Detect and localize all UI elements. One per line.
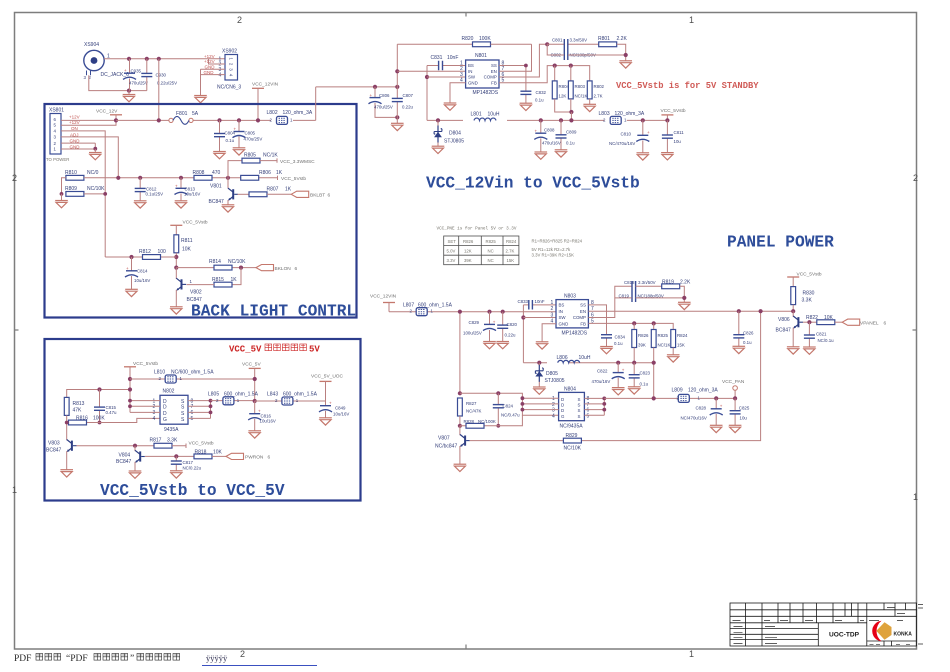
wire FB pin to divider <box>499 66 590 83</box>
capacitor C815 <box>94 387 117 424</box>
wire COMP pin up to compensation net <box>499 44 547 77</box>
svg-text:R805: R805 <box>244 152 256 158</box>
resistor R805 <box>226 152 278 180</box>
wire jack pins2,3 down and right <box>89 75 147 90</box>
connector XS801 <box>46 108 69 163</box>
ground <box>55 201 68 208</box>
IC N804 NC/9435A <box>552 387 590 430</box>
wire R811 node to V802 and R814 <box>174 266 178 270</box>
inductor L801 <box>471 112 500 121</box>
svg-text:NC: NC <box>488 249 494 254</box>
svg-text:C808: C808 <box>544 127 555 132</box>
svg-text:9435A: 9435A <box>164 427 179 433</box>
capacitor C834 (SS) <box>588 305 625 347</box>
svg-text:2: 2 <box>603 117 606 122</box>
svg-text:COMP: COMP <box>484 75 497 80</box>
svg-text:R827: R827 <box>466 401 477 406</box>
svg-text:BKLBT: BKLBT <box>310 193 325 199</box>
resistor R820 <box>397 36 531 47</box>
svg-text:10u/16V: 10u/16V <box>260 419 276 424</box>
svg-text:C817: C817 <box>183 460 194 465</box>
net GND pin3 <box>201 65 226 70</box>
svg-text:C801: C801 <box>552 38 563 43</box>
svg-text:VCC_5Vstb: VCC_5Vstb <box>661 108 686 114</box>
svg-text:10uH: 10uH <box>488 112 500 118</box>
svg-text:BC847: BC847 <box>209 199 225 205</box>
svg-text:R826: R826 <box>638 333 649 338</box>
svg-text:N801: N801 <box>475 53 487 59</box>
resistor R809 <box>60 186 108 200</box>
svg-text:NC/10K: NC/10K <box>228 259 246 265</box>
svg-text:C823: C823 <box>640 370 651 375</box>
svg-text:39K: 39K <box>464 258 472 263</box>
svg-text:BKLON: BKLON <box>275 266 292 272</box>
ground <box>134 201 147 208</box>
svg-text:BC847: BC847 <box>187 297 203 303</box>
svg-text:2: 2 <box>153 404 156 410</box>
svg-text:D: D <box>163 405 167 411</box>
resistor R813 <box>64 387 132 440</box>
ground <box>533 387 546 394</box>
diode D805 STJ0805 <box>535 361 564 387</box>
svg-text:10nF: 10nF <box>535 299 545 304</box>
ferrite bead L843 <box>255 392 326 405</box>
resistor R829 <box>563 433 581 452</box>
svg-text:”: ” <box>130 654 134 664</box>
svg-text:C935: C935 <box>131 68 142 73</box>
ground <box>233 148 246 155</box>
capacitor C829 <box>463 310 496 342</box>
resistor R804 <box>552 66 571 112</box>
svg-text:+12V: +12V <box>204 59 215 64</box>
capacitor C824 <box>493 391 520 428</box>
svg-text:V806: V806 <box>778 317 790 323</box>
svg-text:SET: SET <box>448 239 457 244</box>
svg-text:10u/16V: 10u/16V <box>184 192 200 197</box>
svg-text:VCC_5Vstb: VCC_5Vstb <box>189 440 214 446</box>
svg-text:1: 1 <box>913 492 918 502</box>
wire SW row <box>427 76 466 78</box>
resistor R817 <box>150 438 187 448</box>
svg-text:6: 6 <box>295 266 298 272</box>
svg-text:C829: C829 <box>469 320 480 325</box>
resistor R825 <box>651 323 670 362</box>
svg-text:VCC_5Vstb is for 5V STANDBY: VCC_5Vstb is for 5V STANDBY <box>616 81 759 91</box>
svg-text:+12V: +12V <box>204 54 215 59</box>
wire rail down to N804 <box>459 312 461 394</box>
svg-text:+: + <box>535 128 538 133</box>
svg-text:EN: EN <box>580 309 586 314</box>
port VPANEL <box>842 319 886 326</box>
svg-text:L803: L803 <box>599 111 610 117</box>
svg-text:NC/CN6_3: NC/CN6_3 <box>217 85 241 91</box>
ground <box>194 96 207 103</box>
svg-text:VCC_5V: VCC_5V <box>229 345 262 355</box>
svg-text:2.2K: 2.2K <box>680 280 691 286</box>
svg-text:R824: R824 <box>506 239 517 244</box>
capacitor C818 <box>624 280 663 302</box>
svg-text:0.1u: 0.1u <box>743 340 752 345</box>
wire SW output rail <box>427 119 667 121</box>
transistor V803 <box>46 440 77 470</box>
svg-text:C832: C832 <box>536 90 547 95</box>
ground <box>612 388 625 395</box>
svg-text:BC847: BC847 <box>116 459 132 465</box>
transistor V804 <box>116 444 145 471</box>
wire base bus <box>84 177 278 179</box>
svg-text:6: 6 <box>268 455 271 461</box>
svg-text:IN: IN <box>559 309 563 314</box>
ground <box>600 347 613 354</box>
svg-text:S: S <box>578 414 581 419</box>
svg-text:BC847: BC847 <box>46 448 62 454</box>
svg-text:120_ohm_3A: 120_ohm_3A <box>688 387 718 393</box>
wire GND pin to ground <box>542 324 556 342</box>
svg-text:10K: 10K <box>182 247 192 253</box>
svg-text:VCC_5V: VCC_5V <box>242 362 261 368</box>
svg-text:S: S <box>578 397 581 402</box>
svg-text:1: 1 <box>296 398 299 403</box>
svg-text:12K: 12K <box>559 94 567 99</box>
svg-text:G: G <box>561 414 565 419</box>
svg-text:L802: L802 <box>267 110 278 116</box>
transistor V802 <box>176 268 202 307</box>
svg-text:D804: D804 <box>449 131 461 137</box>
ground <box>125 289 138 296</box>
svg-text:2: 2 <box>551 306 554 312</box>
power VCC_5Vstb rail for R811 <box>170 219 208 235</box>
ground <box>170 471 183 478</box>
ground <box>391 123 404 130</box>
svg-text:6: 6 <box>884 320 887 326</box>
svg-text:C807: C807 <box>403 93 414 98</box>
svg-text:NC/10K: NC/10K <box>564 446 582 452</box>
svg-text:D: D <box>561 403 564 408</box>
svg-text:2.2K: 2.2K <box>617 36 628 42</box>
ground <box>733 346 746 353</box>
svg-text:R801: R801 <box>598 36 610 42</box>
capacitor C823 <box>629 363 651 387</box>
note (red) VCC_5V is standby-switched 5V <box>229 344 320 355</box>
svg-text:2: 2 <box>240 649 245 659</box>
svg-text:470u/16V: 470u/16V <box>592 379 611 384</box>
svg-text:VCC_12V: VCC_12V <box>96 109 118 115</box>
svg-text:R803: R803 <box>575 84 586 89</box>
svg-text:NC: NC <box>488 258 494 263</box>
svg-text:V801: V801 <box>210 184 222 190</box>
capacitor C804 <box>214 118 236 151</box>
capacitor C819 <box>615 293 685 298</box>
ground <box>710 425 723 432</box>
ground <box>129 471 142 478</box>
wire COMP to compensation <box>588 286 631 317</box>
ground <box>444 103 457 110</box>
svg-text:V807: V807 <box>438 436 450 442</box>
capacitor C820 <box>497 310 517 342</box>
svg-text:VCC_5Vstb to VCC_5V: VCC_5Vstb to VCC_5V <box>100 482 285 500</box>
svg-text:“PDF: “PDF <box>66 654 88 664</box>
ground <box>667 355 680 362</box>
ground <box>661 153 674 160</box>
svg-text:1: 1 <box>624 117 627 122</box>
capacitor C807 <box>392 44 414 123</box>
wire L802 up and out of box <box>315 87 317 121</box>
wire BS-SW vertical <box>426 66 428 121</box>
svg-text:EN: EN <box>491 69 497 74</box>
svg-text:C831: C831 <box>431 55 443 61</box>
svg-text:VCC_PAN: VCC_PAN <box>722 379 745 385</box>
svg-text:R826: R826 <box>463 239 474 244</box>
net ON pin4 <box>61 126 105 257</box>
svg-text:R811: R811 <box>181 238 193 244</box>
resistor R826 <box>632 323 649 362</box>
svg-text:VCC_3.3WMSC: VCC_3.3WMSC <box>280 159 315 165</box>
svg-text:15K: 15K <box>507 258 515 263</box>
capacitor C812 <box>135 176 163 201</box>
svg-text:V804: V804 <box>119 453 131 459</box>
connector XS902 <box>217 49 241 91</box>
ground <box>60 470 73 477</box>
wire N804 gate row <box>460 393 559 415</box>
capacitor C806 <box>369 85 398 118</box>
svg-text:V803: V803 <box>48 441 60 447</box>
svg-text:C818: C818 <box>624 280 635 285</box>
svg-text:2.7K: 2.7K <box>506 249 515 254</box>
svg-text:L843: L843 <box>267 392 278 398</box>
svg-text:NC/1K: NC/1K <box>658 343 671 348</box>
svg-text:1: 1 <box>190 279 193 284</box>
svg-text:NC/bc847: NC/bc847 <box>435 444 457 450</box>
power VCC_12VIN <box>370 293 397 311</box>
resistor R803 <box>568 66 587 121</box>
svg-text:NC/470u/16V: NC/470u/16V <box>609 141 635 146</box>
svg-text:470: 470 <box>212 170 221 176</box>
svg-text:GND: GND <box>559 321 569 326</box>
capacitor C816 <box>248 399 276 431</box>
capacitor C826 <box>733 309 754 346</box>
wire jack pin1 to XS902 <box>104 58 225 60</box>
svg-text:+: + <box>647 130 650 135</box>
svg-text:ÿÿÿÿÿ: ÿÿÿÿÿ <box>206 653 228 663</box>
svg-text:1: 1 <box>689 649 694 659</box>
svg-text:C822: C822 <box>597 368 608 373</box>
svg-text:STJ0805: STJ0805 <box>545 378 565 384</box>
resistor R814 <box>209 259 246 270</box>
svg-text:R825: R825 <box>658 333 669 338</box>
svg-text:L809: L809 <box>672 387 683 393</box>
svg-text:C810: C810 <box>621 131 632 136</box>
diode D804 STJ0805 <box>434 118 464 146</box>
svg-text:XS801: XS801 <box>49 108 64 114</box>
connector XS904 (DC jack) <box>84 42 130 80</box>
svg-text:G: G <box>163 417 167 423</box>
IC N803 MP1482DS <box>551 294 595 337</box>
svg-text:R825: R825 <box>486 239 497 244</box>
svg-text:1K: 1K <box>276 170 283 176</box>
svg-text:+: + <box>493 319 496 324</box>
svg-text:L807: L807 <box>403 302 414 308</box>
port BKLON <box>239 265 298 272</box>
svg-text:R824: R824 <box>677 333 688 338</box>
svg-text:2: 2 <box>12 173 17 183</box>
capacitor C813 <box>175 176 201 201</box>
inductor L806 <box>557 355 591 363</box>
svg-text:SS: SS <box>580 303 586 308</box>
ground <box>729 425 742 432</box>
svg-text:5A: 5A <box>192 111 199 117</box>
wire BS-SW vertical <box>522 305 524 363</box>
svg-text:C825: C825 <box>739 406 750 411</box>
power VCC_5V <box>242 362 261 401</box>
svg-text:3.3V: 3.3V <box>447 258 456 263</box>
svg-text:4: 4 <box>153 416 156 422</box>
ground <box>175 201 188 208</box>
ground <box>496 342 509 349</box>
transistor V807 <box>435 426 470 464</box>
svg-text:470u/25V: 470u/25V <box>244 137 263 142</box>
capacitor C817 <box>171 454 202 471</box>
svg-text:3.3n/50V: 3.3n/50V <box>638 280 656 285</box>
ferrite bead L810 <box>128 369 255 383</box>
svg-text:C814: C814 <box>137 269 148 274</box>
svg-text:L801: L801 <box>471 112 482 118</box>
resistor R819 <box>662 280 691 303</box>
svg-text:3.3n/50V: 3.3n/50V <box>570 38 588 43</box>
svg-text:D805: D805 <box>546 371 558 377</box>
svg-text:10uH: 10uH <box>579 355 591 361</box>
svg-text:10u/16V: 10u/16V <box>333 412 349 417</box>
ground <box>222 205 235 212</box>
ground <box>536 342 549 349</box>
svg-text:+: + <box>370 93 373 98</box>
ferrite bead L802 <box>256 110 313 124</box>
svg-text:R807: R807 <box>267 187 279 193</box>
svg-text:D: D <box>561 397 564 402</box>
svg-text:VCC_PNE is for Panel 5V or 3.3: VCC_PNE is for Panel 5V or 3.3V <box>437 227 517 232</box>
ground <box>555 150 568 157</box>
svg-text:3: 3 <box>551 312 554 318</box>
svg-text:PDF: PDF <box>14 654 31 664</box>
node junction <box>127 89 131 93</box>
svg-text:FB: FB <box>580 321 586 326</box>
svg-text:C821: C821 <box>816 331 827 336</box>
svg-text:GND: GND <box>468 81 478 86</box>
svg-text:12K: 12K <box>464 249 472 254</box>
wire N804 right pins <box>584 398 604 415</box>
resistor R808 <box>193 170 221 180</box>
wire V806 base <box>803 321 817 323</box>
svg-text:6: 6 <box>328 193 331 199</box>
svg-text:0.47u: 0.47u <box>106 410 118 415</box>
resistor R812 <box>105 249 176 259</box>
capacitor C935 <box>123 57 148 91</box>
svg-text:+12V: +12V <box>69 115 80 120</box>
ground <box>170 307 183 314</box>
svg-text:VCC_5Vstb: VCC_5Vstb <box>183 219 208 225</box>
svg-text:R1=R826+R825 R2=R824: R1=R826+R825 R2=R824 <box>532 239 583 244</box>
svg-text:2.7K: 2.7K <box>594 94 603 99</box>
ground <box>678 302 691 309</box>
resistor R828 <box>460 415 523 428</box>
port PWRON <box>226 453 271 460</box>
net +12V pin5 <box>61 120 116 125</box>
svg-text:10nF: 10nF <box>447 55 458 61</box>
svg-text:470u/16V: 470u/16V <box>542 141 561 146</box>
power VCC_12V <box>96 109 122 123</box>
wire SW row <box>523 317 556 319</box>
ground <box>787 347 800 354</box>
junction IN row <box>395 69 399 73</box>
logo KONKA <box>872 621 912 642</box>
svg-text:C811: C811 <box>674 130 685 135</box>
svg-text:S: S <box>578 403 581 408</box>
svg-text:0.1u: 0.1u <box>226 138 235 143</box>
svg-text:0.1u: 0.1u <box>614 341 623 346</box>
svg-text:C833: C833 <box>518 299 529 304</box>
svg-text:+: + <box>175 184 178 189</box>
svg-text:VCC_5Vstb: VCC_5Vstb <box>133 361 158 367</box>
svg-text:R806: R806 <box>259 170 271 176</box>
ferrite bead L803 <box>599 111 645 124</box>
svg-text:NC/0: NC/0 <box>87 170 99 176</box>
svg-text:R802: R802 <box>594 84 605 89</box>
wire EN long rail <box>588 310 793 312</box>
svg-text:R820: R820 <box>462 36 474 42</box>
svg-text:PANEL POWER: PANEL POWER <box>727 234 834 252</box>
svg-text:VPANEL: VPANEL <box>860 320 879 326</box>
resistor R807 <box>238 187 292 197</box>
port BKLBT <box>291 191 330 198</box>
svg-text:10u/16V: 10u/16V <box>134 278 150 283</box>
capacitor C810 <box>609 118 650 153</box>
svg-text:2: 2 <box>237 15 242 25</box>
power VCC_5Vstb <box>124 361 158 412</box>
svg-text:+12V: +12V <box>69 120 80 125</box>
svg-text:SW: SW <box>559 315 567 320</box>
svg-text:10u: 10u <box>740 416 748 421</box>
capacitor C930 <box>141 57 177 91</box>
svg-text:VCC_12Vin to VCC_5Vstb: VCC_12Vin to VCC_5Vstb <box>426 175 640 193</box>
svg-text:MP1482DS: MP1482DS <box>562 331 588 337</box>
footer watermark text <box>14 653 317 666</box>
wire GND pin to ground <box>450 83 466 103</box>
svg-text:VCC_5V_UOC: VCC_5V_UOC <box>311 374 344 380</box>
svg-text:VCC_12VIN: VCC_12VIN <box>252 82 279 88</box>
svg-text:S: S <box>578 408 581 413</box>
svg-text:2: 2 <box>275 398 278 403</box>
svg-text:1: 1 <box>551 300 554 306</box>
resistor R816 <box>65 415 160 425</box>
resistor R827 <box>458 398 482 428</box>
capacitor C833 (BS) <box>518 299 557 309</box>
wire to ground <box>200 75 202 96</box>
svg-text:100K: 100K <box>93 415 105 421</box>
svg-text:BC847: BC847 <box>776 327 792 333</box>
marks outside block <box>918 605 923 645</box>
ground <box>319 418 332 425</box>
ground <box>454 464 467 471</box>
svg-text:D: D <box>561 408 564 413</box>
resistor R811 <box>174 235 193 268</box>
resistor R824 <box>671 330 688 355</box>
svg-text:0.22u: 0.22u <box>505 332 517 337</box>
wire IN row to chip <box>397 70 465 72</box>
capacitor C849 <box>319 401 349 418</box>
svg-text:4: 4 <box>552 413 555 419</box>
capacitor C805 <box>233 118 263 147</box>
svg-text:5V R1=12k R2=2.7k: 5V R1=12k R2=2.7k <box>532 247 572 252</box>
svg-text:0.1u/25V: 0.1u/25V <box>146 192 164 197</box>
